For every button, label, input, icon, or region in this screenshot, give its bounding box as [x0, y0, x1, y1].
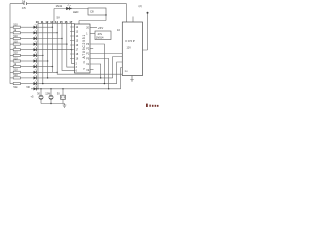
LED D8: [20, 66, 33, 68]
IC U2 body: [75, 24, 91, 73]
wire +5V pin: [90, 27, 97, 29]
LED D7: [20, 60, 33, 62]
LED D12: [34, 87, 37, 90]
svg-text:510: 510: [13, 56, 18, 60]
LED D9: [20, 71, 33, 73]
LED D1: [20, 26, 33, 28]
wire row 3: [37, 38, 62, 40]
LED D3: [20, 38, 33, 40]
resistor R3: [10, 38, 13, 40]
wire column 8 to pin: [72, 23, 75, 63]
wire net C direct: [90, 53, 122, 55]
svg-text:510: 510: [13, 23, 18, 27]
LED D2: [20, 32, 33, 34]
svg-text:F05P: F05P: [126, 39, 136, 43]
LED D10: [20, 77, 33, 79]
wire LED indicator rail: [54, 9, 88, 24]
capacitor C3: [50, 89, 52, 104]
wire row 12 VR: [31, 88, 121, 90]
watermark: [146, 104, 159, 107]
capacitor C5: [24, 2, 27, 5]
wire column 6 to pin: [62, 23, 75, 70]
svg-text:VR: VR: [26, 85, 30, 89]
capacitor C8 box: [88, 8, 106, 15]
wire net A down leg: [90, 44, 104, 84]
wire column 7 to pin: [67, 23, 75, 67]
LED D6: [20, 54, 33, 56]
wire pin stub lower: [90, 69, 94, 71]
wire pin stub: [90, 48, 93, 50]
resistor R13 box: [95, 31, 111, 40]
svg-text:1N41: 1N41: [56, 4, 63, 8]
wire U3 top stub: [132, 17, 134, 23]
label pin numbers: [36, 20, 73, 24]
U2 left pins: [70, 27, 75, 59]
wire top rail: [10, 3, 127, 5]
transmitter U3 body: [122, 22, 142, 76]
capacitor C2: [40, 89, 42, 104]
wire row 1: [37, 26, 53, 28]
svg-text:(2): (2): [139, 4, 142, 8]
wire row 10 up leg: [113, 57, 123, 78]
resistor R5: [10, 49, 13, 51]
wire row 5: [37, 49, 72, 51]
wire row 7: [37, 60, 48, 62]
LED D13: [66, 7, 69, 10]
resistor R2: [10, 32, 13, 34]
svg-text:510: 510: [13, 68, 18, 72]
wire row 4: [37, 43, 67, 45]
resistor R9: [10, 71, 13, 73]
wire row 9: [37, 71, 58, 73]
svg-text:C8: C8: [90, 9, 94, 13]
node column 4: [51, 23, 53, 72]
svg-text:C5: C5: [22, 6, 26, 10]
crystal X1: [62, 89, 64, 104]
wire C8 to IC top pin: [79, 15, 106, 24]
wire row 6: [37, 54, 43, 56]
svg-text:1N914: 1N914: [96, 36, 104, 40]
wire net D down leg: [90, 59, 109, 89]
wire left bus: [9, 4, 11, 84]
svg-text:510: 510: [13, 39, 18, 43]
svg-text:51k: 51k: [13, 85, 18, 89]
svg-text:12M: 12M: [45, 91, 50, 95]
node column 1: [37, 23, 39, 89]
LED D11: [20, 83, 33, 85]
svg-text:510: 510: [13, 34, 18, 38]
wire ground bus: [41, 103, 65, 105]
resistor R4: [10, 43, 13, 45]
wire column 5 under IC: [57, 23, 122, 74]
svg-text:5V: 5V: [57, 16, 61, 20]
svg-text:LED: LED: [73, 10, 78, 14]
U2 pin names right: [86, 27, 90, 72]
U2 pin numbers left: [76, 27, 79, 72]
antenna ANT1: [143, 14, 148, 51]
svg-text:47k: 47k: [98, 32, 103, 36]
svg-text:510: 510: [13, 73, 18, 77]
resistor R11: [10, 83, 13, 85]
ground crystal: [63, 104, 67, 108]
wire net E down leg: [90, 64, 101, 78]
svg-text:+5V: +5V: [98, 26, 103, 30]
svg-text:12V: 12V: [127, 47, 132, 50]
wire row 2: [37, 32, 58, 34]
resistor R8: [10, 66, 13, 68]
wire row 10: [37, 77, 113, 79]
wire U3 top feed: [126, 4, 128, 22]
LED D4: [20, 43, 33, 45]
wire row 8: [37, 66, 53, 68]
resistor R6: [10, 54, 13, 56]
ground U3: [130, 76, 133, 81]
resistor R10: [10, 77, 13, 79]
svg-text:510: 510: [13, 51, 18, 55]
resistor R1: [10, 26, 13, 28]
node column 2: [42, 23, 44, 83]
wire column bus top: [38, 22, 75, 24]
node column 3: [47, 23, 49, 78]
wire row 11 up leg: [117, 62, 123, 84]
wire row 11: [37, 83, 117, 85]
LED D5: [20, 49, 33, 51]
resistor R7: [10, 60, 13, 62]
svg-text:24: 24: [22, 0, 26, 4]
